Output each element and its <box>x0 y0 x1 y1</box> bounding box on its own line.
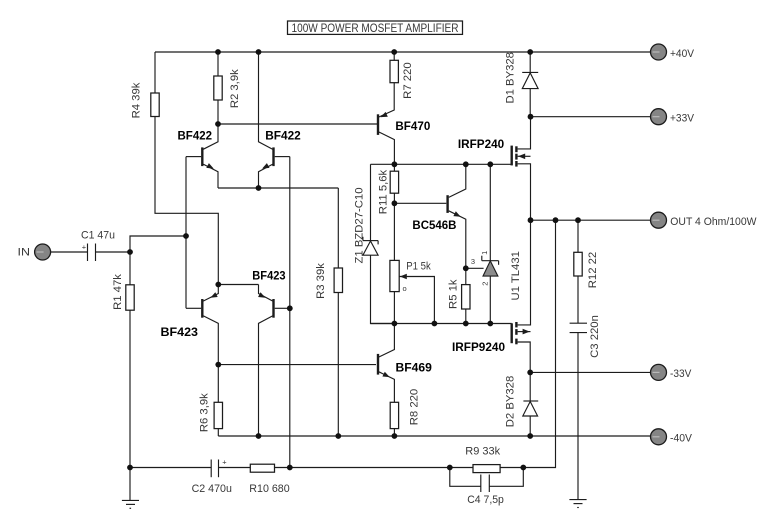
svg-text:1: 1 <box>480 251 489 255</box>
svg-text:R10 680: R10 680 <box>249 483 289 495</box>
svg-text:P1 5k: P1 5k <box>406 261 431 273</box>
svg-text:C4 7,5p: C4 7,5p <box>467 494 504 506</box>
svg-text:C3 220n: C3 220n <box>589 315 601 358</box>
svg-text:BF423: BF423 <box>252 268 286 282</box>
svg-text:+33V: +33V <box>670 113 694 125</box>
svg-text:R6 3,9k: R6 3,9k <box>198 393 210 432</box>
svg-text:R3 39k: R3 39k <box>315 263 327 299</box>
svg-text:R1 47k: R1 47k <box>112 274 124 310</box>
svg-text:R9 33k: R9 33k <box>465 446 500 458</box>
svg-text:+: + <box>82 243 87 252</box>
svg-text:R7 220: R7 220 <box>402 62 414 98</box>
svg-text:IN: IN <box>18 246 31 258</box>
svg-text:2: 2 <box>480 282 489 286</box>
svg-text:U1 TL431: U1 TL431 <box>510 251 522 300</box>
svg-text:BF469: BF469 <box>396 361 433 375</box>
svg-text:-40V: -40V <box>670 432 692 444</box>
svg-text:o: o <box>403 284 407 293</box>
svg-text:-33V: -33V <box>670 368 692 380</box>
svg-text:R12 22: R12 22 <box>587 252 599 288</box>
svg-text:OUT 4 Ohm/100W: OUT 4 Ohm/100W <box>670 216 757 228</box>
svg-text:R8 220: R8 220 <box>409 389 421 425</box>
svg-text:R5 1k: R5 1k <box>448 279 460 309</box>
svg-text:D2 BY328: D2 BY328 <box>505 376 517 428</box>
svg-text:+40V: +40V <box>670 48 694 60</box>
svg-text:BF470: BF470 <box>395 119 430 133</box>
svg-text:IRFP9240: IRFP9240 <box>452 340 505 354</box>
svg-text:R11 5,6k: R11 5,6k <box>378 169 390 214</box>
svg-text:BC546B: BC546B <box>412 218 456 232</box>
svg-text:BF422: BF422 <box>178 129 213 143</box>
svg-text:BF422: BF422 <box>265 129 301 143</box>
svg-text:Z1 BZD27-C10: Z1 BZD27-C10 <box>354 188 366 264</box>
svg-text:100W POWER MOSFET AMPLIFIER: 100W POWER MOSFET AMPLIFIER <box>292 21 459 35</box>
svg-text:+: + <box>222 457 227 466</box>
svg-text:C1 47u: C1 47u <box>81 230 115 242</box>
svg-text:D1 BY328: D1 BY328 <box>505 52 517 104</box>
svg-text:3: 3 <box>471 257 475 266</box>
svg-text:BF423: BF423 <box>161 325 199 339</box>
svg-text:R2 3,9k: R2 3,9k <box>229 69 241 108</box>
svg-text:IRFP240: IRFP240 <box>458 137 505 151</box>
svg-text:R4 39k: R4 39k <box>131 82 143 118</box>
svg-text:C2 470u: C2 470u <box>192 483 232 495</box>
